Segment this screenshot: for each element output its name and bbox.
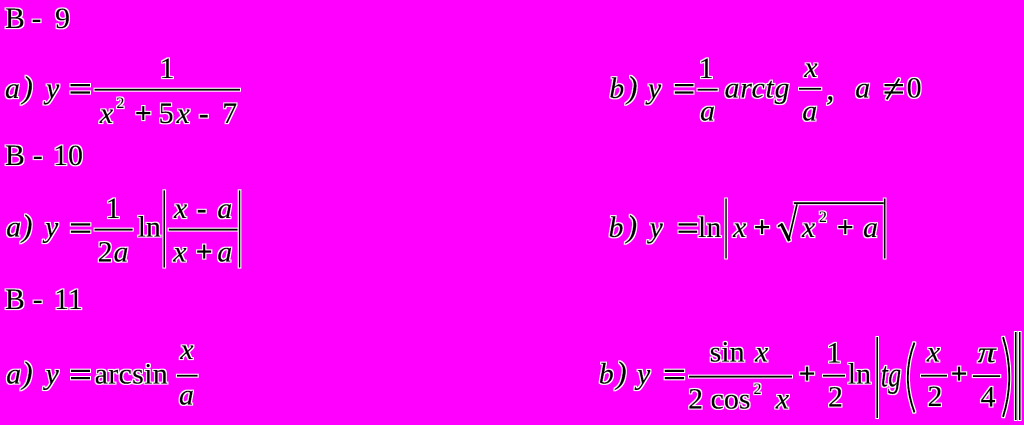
svg-text:-: - [33,139,43,172]
svg-text:): ) [625,208,638,244]
svg-text:a: a [217,192,232,225]
svg-text:x: x [803,51,818,84]
svg-text:2: 2 [98,236,113,269]
svg-text:a: a [5,72,20,105]
svg-text:1: 1 [160,52,175,85]
svg-text:cos: cos [711,383,751,416]
svg-text:5: 5 [159,97,174,130]
svg-text:1: 1 [827,337,842,370]
svg-text:x: x [176,97,191,130]
svg-text:9: 9 [55,2,70,35]
svg-text:a: a [217,236,232,269]
svg-text:y: y [42,211,59,244]
svg-text:a: a [863,211,878,244]
svg-text:1: 1 [699,52,714,85]
svg-text:x: x [801,211,816,244]
svg-text:+: + [837,211,854,244]
svg-text:a: a [114,236,129,269]
svg-text:10: 10 [53,139,83,172]
svg-text:arcsin: arcsin [95,358,168,391]
svg-text:+: + [951,357,968,390]
svg-text:): ) [614,355,627,391]
svg-text:x: x [775,383,790,416]
svg-text:2: 2 [828,381,843,414]
svg-text:В: В [5,283,25,316]
svg-text:ln: ln [138,211,161,244]
svg-text:y: y [647,211,664,244]
svg-text:2: 2 [819,209,827,226]
svg-text:a: a [700,95,715,128]
svg-text:-: - [197,192,207,225]
svg-text:y: y [43,72,60,105]
svg-text:x: x [754,336,769,369]
svg-text:11: 11 [54,283,83,316]
svg-text:): ) [20,355,33,391]
svg-text:x: x [99,97,114,130]
svg-text:y: y [43,358,60,391]
svg-text:x: x [179,333,194,366]
svg-text:7: 7 [222,97,237,130]
svg-text:y: y [634,358,651,391]
svg-text:0: 0 [907,72,922,105]
svg-text:x: x [926,336,941,369]
svg-text:sin: sin [710,336,745,369]
svg-text:+: + [754,211,771,244]
svg-text:,: , [826,71,835,108]
svg-text:2: 2 [928,380,943,413]
svg-text:y: y [645,72,662,105]
svg-text:1: 1 [106,192,121,225]
svg-text:4: 4 [981,381,996,414]
svg-text:b: b [609,72,624,105]
svg-text:-: - [32,2,42,35]
svg-text:tg: tg [881,354,901,394]
svg-text:π: π [978,336,997,369]
svg-text:a: a [179,379,194,412]
svg-text:): ) [20,69,33,105]
svg-text:x: x [732,211,747,244]
svg-text:b: b [599,358,614,391]
svg-text:x: x [173,192,188,225]
svg-text:В: В [5,139,25,172]
svg-text:x: x [172,236,187,269]
svg-text:2: 2 [116,95,124,112]
svg-text:a: a [6,211,21,244]
svg-text:-: - [199,97,209,130]
svg-text:ln: ln [848,358,871,391]
svg-text:+: + [799,357,816,390]
svg-text:arctg: arctg [725,72,791,105]
svg-text:+: + [135,97,152,130]
svg-text:a: a [6,358,21,391]
svg-text:a: a [855,72,870,105]
svg-text:-: - [33,283,43,316]
svg-text:a: a [802,95,817,128]
svg-text:2: 2 [754,381,762,398]
svg-text:): ) [20,208,33,244]
svg-text:ln: ln [698,211,721,244]
svg-text:2: 2 [688,383,703,416]
svg-text:b: b [609,211,624,244]
svg-text:): ) [625,69,638,105]
svg-text:В: В [5,2,25,35]
svg-text:+: + [196,236,213,269]
